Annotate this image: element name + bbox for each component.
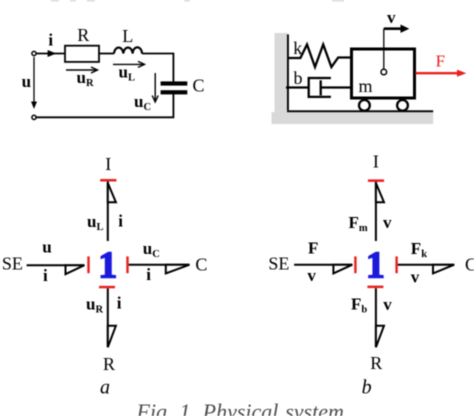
svg-text:v: v	[307, 266, 316, 285]
svg-text:L: L	[122, 26, 133, 46]
svg-text:v: v	[383, 213, 392, 232]
svg-text:1: 1	[366, 245, 385, 287]
svg-text:u: u	[42, 238, 51, 257]
svg-text:i: i	[48, 31, 53, 50]
svg-text:u: u	[22, 72, 31, 91]
svg-text:R: R	[370, 353, 382, 373]
svg-text:Fig. 1. Physical system: Fig. 1. Physical system	[136, 399, 344, 416]
svg-text:SE: SE	[2, 254, 23, 274]
svg-text:i: i	[117, 293, 122, 312]
svg-text:F: F	[308, 239, 318, 258]
svg-text:C: C	[195, 254, 207, 274]
svg-text:v: v	[383, 295, 392, 314]
svg-text:b: b	[294, 68, 303, 88]
svg-text:R: R	[103, 354, 115, 374]
svg-text:a: a	[100, 377, 110, 399]
svg-text:i: i	[43, 266, 48, 285]
svg-text:SE: SE	[268, 254, 289, 274]
svg-text:C: C	[465, 254, 474, 274]
svg-text:I: I	[105, 154, 111, 174]
svg-text:i: i	[118, 211, 123, 230]
svg-text:R: R	[77, 25, 89, 45]
svg-text:v: v	[411, 268, 420, 287]
svg-text:F: F	[436, 51, 445, 70]
svg-text:i: i	[146, 265, 151, 284]
svg-text:k: k	[293, 38, 302, 58]
svg-text:I: I	[373, 152, 379, 172]
svg-text:1: 1	[98, 245, 117, 287]
svg-text:m: m	[358, 76, 372, 96]
svg-text:C: C	[193, 76, 205, 96]
svg-text:v: v	[387, 8, 396, 27]
svg-text:b: b	[362, 377, 372, 399]
